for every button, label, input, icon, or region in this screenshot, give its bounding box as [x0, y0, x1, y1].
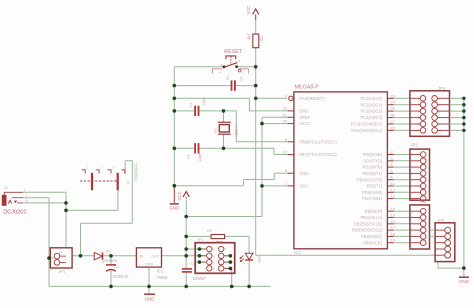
- svg-text:ISP: ISP: [216, 240, 223, 245]
- svg-text:VCC: VCC: [246, 6, 251, 15]
- svg-text:PD2(INT0): PD2(INT0): [363, 165, 383, 170]
- svg-text:OUT: OUT: [151, 254, 160, 258]
- svg-text:4k7: 4k7: [247, 32, 252, 39]
- svg-text:26: 26: [391, 113, 395, 118]
- svg-text:100NF: 100NF: [193, 276, 206, 281]
- svg-text:R2: R2: [207, 228, 213, 233]
- svg-text:LED: LED: [257, 255, 261, 263]
- svg-text:12MHz: 12MHz: [235, 125, 239, 137]
- svg-text:PB7(XTAL2/TOSC2): PB7(XTAL2/TOSC2): [299, 152, 337, 157]
- svg-text:MEGA8-P: MEGA8-P: [295, 85, 320, 91]
- svg-text:GND: GND: [299, 171, 308, 176]
- svg-text:JP1: JP1: [58, 269, 66, 274]
- svg-text:C4: C4: [114, 264, 120, 269]
- svg-text:PD4(XCK/T0): PD4(XCK/T0): [357, 177, 383, 182]
- svg-text:R1: R1: [259, 35, 264, 41]
- svg-text:15: 15: [391, 213, 395, 218]
- svg-text:Q1: Q1: [214, 128, 218, 133]
- svg-text:L1: L1: [59, 250, 63, 254]
- svg-text:3: 3: [391, 156, 393, 161]
- svg-text:RESET: RESET: [224, 49, 243, 55]
- svg-text:JP5: JP5: [419, 199, 427, 204]
- svg-text:VCC: VCC: [177, 191, 182, 200]
- svg-text:7805: 7805: [157, 275, 168, 281]
- svg-text:S1: S1: [226, 76, 230, 81]
- svg-text:PB4(MISO): PB4(MISO): [361, 234, 383, 239]
- svg-text:PC6(/RESET): PC6(/RESET): [299, 96, 325, 101]
- svg-text:IC1: IC1: [294, 250, 301, 255]
- svg-text:IN: IN: [140, 254, 144, 258]
- svg-text:PB0(ICP): PB0(ICP): [365, 209, 383, 214]
- svg-text:JP3: JP3: [411, 143, 419, 148]
- svg-text:PC1(ADC1): PC1(ADC1): [360, 102, 382, 107]
- svg-text:DCJ0202: DCJ0202: [3, 209, 26, 215]
- svg-text:1: 1: [285, 93, 287, 98]
- svg-text:PD0(RXD): PD0(RXD): [363, 152, 383, 157]
- svg-text:27: 27: [391, 119, 395, 124]
- svg-text:D1: D1: [106, 249, 112, 254]
- svg-text:9: 9: [285, 137, 287, 142]
- svg-text:8: 8: [285, 168, 287, 173]
- svg-text:19: 19: [391, 238, 395, 243]
- svg-text:JP2: JP2: [438, 86, 446, 91]
- svg-text:PB3(MOSI/OC2): PB3(MOSI/OC2): [352, 228, 383, 233]
- svg-text:23: 23: [391, 93, 395, 98]
- svg-text:JP6: JP6: [437, 218, 445, 223]
- svg-text:PC0(ADC0): PC0(ADC0): [360, 96, 382, 101]
- svg-text:JP1: JP1: [197, 238, 204, 242]
- svg-text:ON/OFF: ON/OFF: [133, 163, 139, 181]
- svg-text:AREF: AREF: [299, 115, 310, 120]
- svg-text:GND: GND: [299, 109, 308, 114]
- svg-text:22pF: 22pF: [202, 96, 206, 105]
- svg-text:25: 25: [391, 106, 395, 111]
- svg-text:PD5(T1): PD5(T1): [367, 184, 383, 189]
- svg-text:GND: GND: [145, 263, 154, 267]
- svg-text:PC3(ADC3): PC3(ADC3): [360, 115, 382, 120]
- svg-text:2: 2: [26, 194, 28, 198]
- svg-text:7: 7: [285, 181, 287, 186]
- svg-text:22: 22: [283, 106, 287, 111]
- svg-text:11: 11: [391, 181, 395, 186]
- svg-text:2: 2: [391, 150, 393, 155]
- svg-text:PD6(AIN0): PD6(AIN0): [362, 190, 382, 195]
- svg-text:PD7(AIN1): PD7(AIN1): [362, 196, 382, 201]
- svg-text:5: 5: [391, 168, 393, 173]
- svg-text:16: 16: [391, 219, 395, 224]
- svg-text:PB1(OC1A): PB1(OC1A): [360, 215, 382, 220]
- svg-text:PC5(ADC5/SCL): PC5(ADC5/SCL): [351, 128, 382, 133]
- svg-text:2200uF: 2200uF: [112, 274, 128, 280]
- svg-text:12: 12: [391, 187, 395, 192]
- svg-text:PC2(ADC2): PC2(ADC2): [360, 109, 382, 114]
- svg-text:C1: C1: [189, 103, 193, 108]
- svg-text:PD3(INT1): PD3(INT1): [363, 171, 383, 176]
- svg-text:GND: GND: [459, 279, 469, 284]
- svg-text:PC4(ADC4/SDA): PC4(ADC4/SDA): [351, 122, 383, 127]
- svg-text:1N4004: 1N4004: [102, 258, 118, 263]
- svg-text:28: 28: [391, 125, 395, 130]
- svg-text:GND: GND: [169, 205, 179, 210]
- svg-text:3: 3: [26, 199, 28, 203]
- svg-text:PD1(TXD): PD1(TXD): [363, 158, 383, 163]
- svg-text:13: 13: [391, 194, 395, 199]
- svg-text:S2: S2: [126, 180, 130, 184]
- svg-text:IC2: IC2: [157, 269, 164, 274]
- svg-text:AVCC: AVCC: [299, 121, 310, 126]
- svg-text:22pF: 22pF: [198, 152, 202, 161]
- svg-text:C3: C3: [239, 77, 243, 82]
- svg-text:PB2(SS/OC1B): PB2(SS/OC1B): [354, 221, 383, 226]
- svg-text:1: 1: [23, 188, 25, 192]
- svg-text:VCC: VCC: [299, 184, 308, 189]
- svg-text:18: 18: [391, 231, 395, 236]
- svg-text:21: 21: [283, 112, 287, 117]
- svg-text:PB5(SCK): PB5(SCK): [363, 240, 383, 245]
- svg-text:C2: C2: [186, 154, 190, 159]
- svg-text:+: +: [102, 260, 104, 264]
- svg-text:PB6(XTAL1/TOSC1): PB6(XTAL1/TOSC1): [299, 139, 337, 144]
- svg-text:GND: GND: [145, 296, 155, 301]
- svg-text:6: 6: [391, 175, 393, 180]
- svg-text:17: 17: [391, 225, 395, 230]
